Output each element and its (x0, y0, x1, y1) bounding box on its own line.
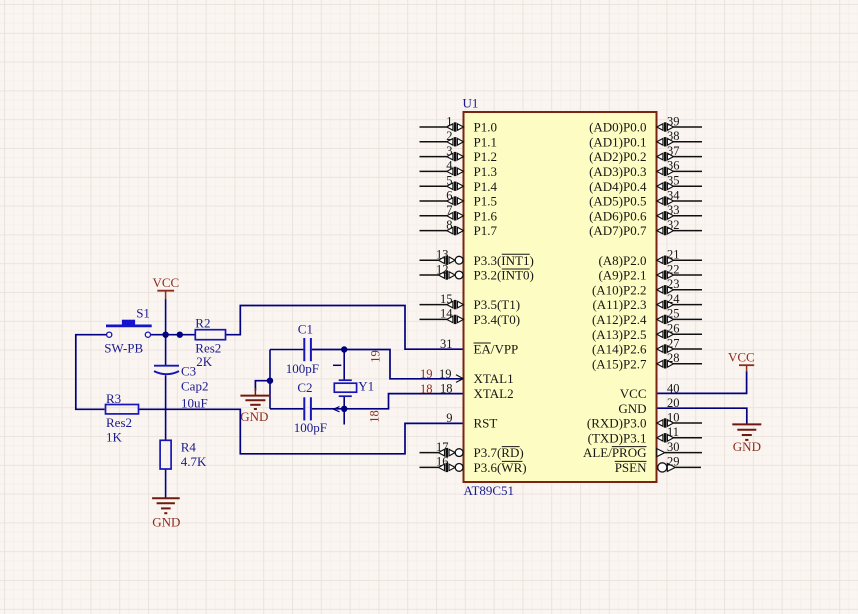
svg-text:GND: GND (240, 409, 268, 424)
svg-text:R3: R3 (106, 391, 121, 406)
pin 34 (AD5)P0.5 (right) (589, 188, 702, 208)
pin 16 P3.6(WR) (left) (420, 455, 527, 475)
svg-text:24: 24 (667, 292, 680, 306)
svg-text:(AD1)P0.1: (AD1)P0.1 (589, 134, 646, 149)
svg-text:C3: C3 (181, 363, 196, 378)
svg-text:16: 16 (436, 455, 449, 469)
svg-text:36: 36 (667, 159, 680, 173)
wire R2 to EA/VPP (pin 31) (226, 306, 464, 350)
svg-text:17: 17 (436, 440, 449, 454)
svg-text:P3.3(INT1): P3.3(INT1) (474, 253, 534, 268)
wire C2 left (270, 408, 303, 410)
svg-text:32: 32 (667, 218, 680, 232)
pin 36 (AD3)P0.3 (right) (589, 159, 702, 179)
pin 26 (A13)P2.5 (right) (592, 322, 702, 342)
svg-text:P3.6(WR): P3.6(WR) (474, 460, 527, 475)
svg-text:(AD0)P0.0: (AD0)P0.0 (589, 120, 646, 135)
svg-text:ALE/PROG: ALE/PROG (583, 445, 647, 460)
pin 31 EA/VPP (left) (440, 337, 518, 357)
svg-text:RST: RST (474, 416, 498, 431)
wire node A to C3 top (165, 335, 167, 366)
svg-text:XTAL2: XTAL2 (474, 386, 514, 401)
svg-text:P3.5(T1): P3.5(T1) (474, 297, 521, 312)
svg-text:27: 27 (667, 336, 680, 350)
svg-text:(AD6)P0.6: (AD6)P0.6 (589, 208, 647, 223)
pin 37 (AD2)P0.2 (right) (589, 144, 702, 164)
svg-text:(AD3)P0.3: (AD3)P0.3 (589, 164, 646, 179)
svg-text:AT89C51: AT89C51 (464, 483, 515, 498)
svg-text:15: 15 (440, 292, 453, 306)
pin 13 P3.3(INT1) (left) (420, 248, 534, 268)
pin 11 (TXD)P3.1 (right) (588, 425, 702, 445)
ground GND symbol bottom left (152, 498, 180, 529)
svg-text:25: 25 (667, 307, 680, 321)
svg-text:2: 2 (446, 129, 452, 143)
svg-text:22: 22 (667, 262, 680, 276)
svg-text:VCC: VCC (153, 275, 180, 290)
pin 9 RST (left) (446, 411, 497, 431)
svg-text:4: 4 (446, 159, 453, 173)
svg-text:(RXD)P3.0: (RXD)P3.0 (587, 416, 647, 431)
svg-text:(AD4)P0.4: (AD4)P0.4 (589, 179, 647, 194)
pin 23 (A10)P2.2 (right) (592, 277, 702, 297)
resistor R4 (160, 440, 207, 470)
svg-text:P1.3: P1.3 (474, 164, 497, 179)
svg-text:100pF: 100pF (286, 361, 319, 376)
wire VCC pin 40 to VCC symbol (657, 371, 747, 393)
svg-text:Y1: Y1 (358, 379, 374, 394)
svg-text:P1.7: P1.7 (474, 223, 498, 238)
junction C1-Y1 (341, 346, 347, 352)
svg-text:(AD7)P0.7: (AD7)P0.7 (589, 223, 647, 238)
pin 21 (A8)P2.0 (right) (598, 248, 702, 268)
svg-text:(AD5)P0.5: (AD5)P0.5 (589, 194, 646, 209)
svg-text:P1.4: P1.4 (474, 179, 498, 194)
capacitor C1 100pF (286, 322, 319, 376)
resistor R3 (106, 391, 139, 444)
svg-text:31: 31 (440, 337, 453, 351)
resistor R2 (195, 315, 225, 369)
pin 40 VCC (right) (620, 381, 680, 401)
svg-text:34: 34 (667, 188, 680, 202)
svg-text:4.7K: 4.7K (181, 454, 207, 469)
svg-text:XTAL1: XTAL1 (474, 371, 514, 386)
svg-text:40: 40 (667, 381, 680, 395)
wire Y1 top lead (343, 350, 345, 381)
svg-text:18: 18 (420, 382, 433, 396)
svg-text:(A8)P2.0: (A8)P2.0 (598, 253, 646, 268)
svg-text:P1.1: P1.1 (474, 134, 497, 149)
pin 17 P3.7(RD) (left) (420, 440, 524, 460)
pin 24 (A11)P2.3 (right) (592, 292, 702, 312)
pin 8 P1.7 (left) (420, 218, 498, 238)
svg-text:18: 18 (440, 381, 453, 395)
crystal Y1 (334, 379, 374, 397)
pin 18 XTAL2 (left) (440, 381, 514, 401)
svg-text:33: 33 (667, 203, 680, 217)
svg-text:GND: GND (733, 439, 761, 454)
wire C1 right to XTAL1 (pin 19) (312, 350, 464, 379)
svg-text:30: 30 (667, 440, 680, 454)
power VCC symbol left (153, 275, 180, 300)
pin 20 GND (right) (618, 396, 679, 416)
svg-text:S1: S1 (136, 305, 150, 320)
svg-text:P3.2(INT0): P3.2(INT0) (474, 268, 534, 283)
svg-text:11: 11 (667, 425, 679, 439)
pin 1 P1.0 (left) (420, 114, 497, 134)
svg-text:8: 8 (446, 218, 452, 232)
wire GND pin 20 to GND symbol (657, 408, 747, 424)
svg-text:5: 5 (446, 174, 452, 188)
svg-text:21: 21 (667, 248, 680, 262)
svg-text:P1.5: P1.5 (474, 194, 497, 209)
svg-text:Cap2: Cap2 (181, 378, 208, 393)
pin 33 (AD6)P0.6 (right) (589, 203, 702, 223)
pin 12 P3.2(INT0) (left) (420, 262, 534, 282)
pin 25 (A12)P2.4 (right) (592, 307, 702, 327)
wire C3 bottom to R4 top (165, 375, 167, 440)
svg-text:19: 19 (369, 350, 383, 363)
svg-text:37: 37 (667, 144, 680, 158)
svg-text:(TXD)P3.1: (TXD)P3.1 (588, 430, 647, 445)
svg-text:(A12)P2.4: (A12)P2.4 (592, 312, 647, 327)
pin 29 PSEN (right) (615, 455, 701, 475)
pin 3 P1.2 (left) (420, 144, 497, 164)
svg-text:SW-PB: SW-PB (104, 341, 143, 356)
capacitor C2 100pF (294, 380, 327, 435)
svg-text:P1.6: P1.6 (474, 208, 498, 223)
svg-text:7: 7 (446, 203, 452, 217)
svg-text:38: 38 (667, 129, 680, 143)
Y1 pin mark top (333, 364, 341, 366)
pin 14 P3.4(T0) (left) (420, 307, 521, 327)
pin 30 ALE/PROG (right) (583, 440, 702, 460)
wire C1-C2 left vertical (269, 350, 271, 409)
svg-text:Res2: Res2 (106, 415, 132, 430)
power VCC symbol right (728, 350, 755, 373)
switch S1 SW-PB (104, 305, 152, 355)
svg-text:28: 28 (667, 351, 680, 365)
wire C1 left (270, 349, 303, 351)
svg-text:(A9)P2.1: (A9)P2.1 (598, 268, 646, 283)
pin 28 (A15)P2.7 (right) (592, 351, 702, 371)
pin 19 XTAL1 (left) (439, 367, 514, 386)
svg-text:PSEN: PSEN (615, 460, 647, 475)
svg-text:13: 13 (436, 248, 449, 262)
svg-text:(A13)P2.5: (A13)P2.5 (592, 327, 647, 342)
capacitor C3 Cap2 (polarized) (154, 363, 208, 410)
svg-text:3: 3 (446, 144, 452, 158)
svg-text:12: 12 (436, 262, 449, 276)
wire junction to GND branch (255, 381, 270, 391)
svg-text:R2: R2 (195, 315, 210, 330)
svg-text:(A15)P2.7: (A15)P2.7 (592, 356, 647, 371)
svg-text:26: 26 (667, 322, 680, 336)
wire R3 to RST (pin 9) (139, 409, 464, 454)
svg-text:20: 20 (667, 396, 680, 410)
pin 4 P1.3 (left) (420, 159, 497, 179)
svg-text:C2: C2 (297, 380, 312, 395)
pin 7 P1.6 (left) (420, 203, 498, 223)
svg-text:2K: 2K (196, 354, 213, 369)
svg-text:23: 23 (667, 277, 680, 291)
svg-text:(AD2)P0.2: (AD2)P0.2 (589, 149, 646, 164)
junction C2-Y1 (341, 406, 347, 412)
pin 2 P1.1 (left) (420, 129, 497, 149)
svg-text:R4: R4 (181, 440, 197, 455)
pin 10 (RXD)P3.0 (right) (587, 410, 702, 430)
junction caps-GND (267, 378, 273, 384)
pin 32 (AD7)P0.7 (right) (589, 218, 702, 238)
wire S1 to node A (VCC node) (151, 334, 196, 336)
svg-text:(A11)P2.3: (A11)P2.3 (592, 297, 646, 312)
svg-text:P3.4(T0): P3.4(T0) (474, 312, 521, 327)
svg-text:VCC: VCC (728, 350, 755, 365)
pin 15 P3.5(T1) (left) (420, 292, 521, 312)
pin 38 (AD1)P0.1 (right) (589, 129, 702, 149)
svg-text:29: 29 (667, 455, 680, 469)
svg-text:1K: 1K (106, 430, 123, 445)
pin 22 (A9)P2.1 (right) (598, 262, 702, 282)
svg-text:C1: C1 (298, 322, 313, 337)
svg-text:P1.0: P1.0 (474, 120, 497, 135)
svg-text:10: 10 (667, 410, 680, 424)
pin 39 (AD0)P0.0 (right) (589, 114, 702, 134)
svg-text:18: 18 (368, 410, 382, 423)
IC U1 AT89C51 body (464, 112, 657, 482)
svg-text:P1.2: P1.2 (474, 149, 497, 164)
svg-text:39: 39 (667, 114, 680, 128)
svg-text:P3.7(RD): P3.7(RD) (474, 445, 524, 460)
svg-text:19: 19 (420, 367, 433, 381)
svg-text:VCC: VCC (620, 386, 647, 401)
wire VCC to node A (165, 299, 167, 335)
svg-text:35: 35 (667, 174, 680, 188)
pin 6 P1.5 (left) (420, 188, 497, 208)
svg-text:19: 19 (439, 367, 452, 381)
svg-text:10uF: 10uF (181, 396, 208, 411)
svg-text:GND: GND (152, 515, 180, 530)
svg-text:100pF: 100pF (294, 420, 327, 435)
svg-text:U1: U1 (463, 96, 479, 111)
svg-text:(A10)P2.2: (A10)P2.2 (592, 282, 647, 297)
pin 27 (A14)P2.6 (right) (592, 336, 702, 356)
pin 5 P1.4 (left) (420, 174, 498, 194)
svg-text:6: 6 (446, 188, 452, 202)
pin 35 (AD4)P0.4 (right) (589, 174, 702, 194)
wire R4 bottom to GND (165, 469, 167, 498)
Y1 pin mark bottom (334, 407, 340, 412)
svg-text:GND: GND (618, 401, 646, 416)
wire C2 right to XTAL2 (pin 18) (312, 394, 464, 409)
wire Y1 bottom lead (343, 396, 345, 424)
svg-text:14: 14 (440, 307, 453, 321)
svg-text:(A14)P2.6: (A14)P2.6 (592, 342, 647, 357)
node A junction dots (162, 332, 168, 338)
svg-text:1: 1 (446, 114, 452, 128)
svg-text:9: 9 (446, 411, 452, 425)
svg-text:EA/VPP: EA/VPP (474, 342, 519, 357)
ground GND symbol right (732, 424, 761, 454)
wire S1 left to R3 (76, 335, 107, 410)
ground GND symbol near crystal (240, 388, 270, 424)
